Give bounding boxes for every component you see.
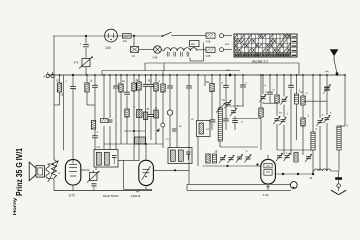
wire drop x261 [260, 75, 262, 150]
svg-text:m1: m1 [97, 146, 101, 149]
tube V3 shield bracket [118, 160, 152, 193]
IF transformer T1 coil b [104, 152, 109, 165]
wire drop x156 [155, 75, 157, 144]
coil L3 small [212, 154, 216, 163]
svg-text:ET2: ET2 [69, 194, 75, 198]
capacitor C13b [232, 121, 238, 123]
potentiometer ST4 [74, 57, 94, 69]
transformer TR1 voltage box [190, 40, 200, 48]
arrow on zigzag [50, 161, 59, 179]
capacitor C18 [324, 87, 330, 89]
resistor R6 [119, 84, 123, 92]
svg-text:7: 7 [287, 113, 289, 116]
capacitor C6 [124, 92, 130, 94]
svg-text:a: a [242, 121, 244, 124]
resistor R3 [85, 83, 89, 92]
wire drop x110 [109, 75, 111, 150]
svg-text:a: a [330, 112, 332, 115]
wire drop x243 [242, 75, 244, 106]
node bus junction dots [59, 74, 346, 76]
trimmer CT15 [273, 116, 280, 124]
wire drop x177 [176, 75, 178, 148]
svg-text:2: 2 [97, 131, 99, 134]
terminal pickup G1 [43, 72, 49, 79]
node junction at x86 top wire [85, 35, 87, 37]
wire bottom frame [187, 184, 291, 190]
wire grid line y144 [104, 143, 163, 161]
lamp dial [139, 46, 162, 60]
capacitor C7 [143, 84, 149, 86]
svg-text:4a: 4a [329, 84, 332, 87]
wire tube3 link [153, 169, 189, 171]
resistor R9 [154, 83, 158, 91]
svg-text:Prinz 35 G IV/1: Prinz 35 G IV/1 [14, 148, 24, 196]
wire drop x163 [162, 71, 164, 149]
wire drop x277 [276, 75, 278, 150]
wire link y147 [220, 146, 258, 148]
resistor R8c horizontal [135, 137, 146, 144]
speaker coil [46, 164, 49, 182]
wire drop x212 [211, 75, 213, 130]
capacitor C20 block [335, 177, 342, 180]
capacitor C4 [108, 120, 113, 122]
resistor field zigzag on x54 [51, 160, 56, 178]
svg-text:43a: 43a [123, 40, 128, 43]
capacitor C9 [167, 86, 173, 88]
wire link y103 [263, 102, 277, 104]
trimmer CT5 [236, 154, 243, 162]
wire drop x139 [138, 75, 140, 160]
svg-text:G: G [43, 75, 45, 79]
svg-text:4a: 4a [122, 80, 125, 83]
speaker cone [29, 162, 36, 181]
wire drop x73 tube1 anode [72, 74, 74, 160]
bus line upper y63 [145, 62, 299, 64]
ground symbol [331, 190, 346, 194]
svg-text:VVB: VVB [153, 57, 158, 60]
svg-text:2: 2 [159, 80, 161, 83]
capacitor C22 [172, 129, 176, 131]
wire bus link x164 [163, 63, 165, 71]
resistor R11 [259, 108, 263, 117]
wire bus link x145 [144, 63, 146, 71]
svg-text:2a: 2a [90, 80, 93, 83]
capacitor C10 [186, 86, 192, 88]
capacitor C11 [210, 120, 216, 122]
svg-text:12v: 12v [191, 42, 196, 46]
wire drop x151 [150, 75, 152, 140]
wire drop x313 [312, 75, 314, 172]
wire drop x59.5 [54, 75, 60, 105]
svg-text:25: 25 [56, 80, 59, 83]
svg-text:25: 25 [147, 108, 150, 111]
voltage table [234, 34, 297, 57]
capacitor C14 [267, 92, 273, 94]
fuse F1 [131, 47, 139, 58]
wire drop x121 [120, 75, 122, 144]
svg-text:+G: +G [226, 68, 231, 72]
wire drop x87 [87, 75, 95, 105]
IF transformer T2 coil a [170, 150, 175, 161]
wire drop x104 [103, 75, 105, 150]
resistor R1 in top wire [123, 34, 132, 43]
resistor R17 [210, 84, 214, 92]
wire bottom rail left [54, 190, 152, 192]
trimmer CT3 [219, 155, 226, 163]
capacitor C17 [288, 85, 294, 87]
wire drop x116 [115, 75, 117, 150]
wire drop x145.5 [145, 75, 147, 144]
coil L5 IF [337, 126, 341, 150]
svg-text:4: 4 [322, 114, 324, 117]
svg-text:7: 7 [246, 82, 248, 85]
resistor block VVB bottom [206, 47, 216, 58]
svg-text:49: 49 [222, 99, 225, 102]
resistor R13 [275, 95, 279, 103]
wire drop x263r [262, 75, 264, 103]
bus line main y75 [48, 74, 345, 76]
svg-text:+2: +2 [179, 125, 182, 128]
wire drop x305 [302, 75, 304, 155]
transformer TR1 primary humps [161, 48, 197, 51]
wire ground stub [337, 171, 341, 191]
wire top mains row [53, 35, 206, 37]
resistor R16 [301, 118, 305, 126]
wire rail x189 long [188, 75, 190, 184]
capacitor C4b [92, 136, 98, 138]
wire link y106 [226, 105, 244, 107]
svg-text:m: m [273, 89, 275, 92]
wire drop x86 [85, 36, 87, 75]
tube V3 DG detector [139, 160, 154, 189]
antenna symbol [330, 49, 339, 73]
svg-text:A: A [58, 171, 61, 175]
wire bus link x299 [298, 63, 300, 75]
wire rail x54 [53, 36, 55, 191]
wire stub antenna bus [336, 74, 338, 76]
wire drop x327 [326, 75, 328, 171]
wire coil down [338, 150, 340, 171]
capacitor C1 on x86 [80, 42, 89, 47]
coil L1 oscillator can [197, 121, 211, 137]
svg-text:Horny: Horny [12, 197, 18, 215]
wire drop x198 [197, 75, 199, 166]
transformer TR1 taps [167, 52, 189, 57]
svg-text:DGR 5N3U: DGR 5N3U [103, 194, 119, 198]
svg-text:4: 4 [265, 85, 267, 88]
svg-text:m: m [167, 138, 169, 141]
svg-text:1: 1 [66, 80, 68, 83]
trimmer CT4 [227, 155, 234, 163]
svg-text:m: m [306, 92, 308, 95]
wire drop x298 [296, 75, 298, 140]
svg-text:a: a [246, 150, 248, 153]
resistor R2 [57, 83, 61, 92]
svg-text:1.93: 1.93 [263, 193, 269, 197]
wire drop x235 [234, 75, 236, 130]
resistor R7 [132, 83, 136, 91]
speaker magnet box [36, 166, 45, 177]
node circle j4 [167, 110, 172, 115]
wire drop x95 [94, 75, 96, 150]
node jack dot [293, 187, 295, 189]
wire link y118.5 [232, 118, 261, 120]
resistor R18 [143, 112, 147, 120]
svg-text:4: 4 [286, 152, 288, 155]
node j3 [256, 163, 258, 165]
resistor R5 horizontal [101, 119, 109, 123]
trimmer CT1 [224, 100, 231, 108]
node fuse tap [133, 35, 135, 47]
wire drop x205 [204, 75, 206, 86]
wire drop x270 [269, 75, 271, 103]
trimmer CT2 [230, 108, 237, 116]
capacitor C8 [148, 84, 154, 86]
trimmer CT8 [280, 96, 287, 104]
coil L1b small [154, 110, 159, 118]
wire row2 to block [197, 49, 206, 51]
wire link y131 [124, 130, 145, 132]
node circle j1 [161, 123, 165, 127]
svg-text:49: 49 [158, 129, 161, 132]
svg-text:1402 B: 1402 B [131, 194, 141, 198]
svg-text:8: 8 [347, 125, 349, 128]
capacitor C3 [92, 85, 98, 87]
wire drop x226 [225, 75, 227, 130]
resistor block VVB top [206, 33, 216, 44]
tube V4 output L93 [261, 155, 276, 190]
capacitor C5 [113, 86, 119, 88]
resistor R6b [125, 109, 129, 117]
wire drop x345 [339, 75, 345, 126]
svg-text:m: m [237, 105, 239, 108]
node j2 [226, 165, 228, 167]
wire drop x320 [319, 75, 321, 171]
choke bumps y171 [313, 169, 338, 174]
wire link y101 [303, 100, 327, 102]
capacitor C8b [148, 114, 154, 116]
node +G junction [226, 68, 232, 77]
resistor R15 [301, 96, 305, 105]
rectifier tube V1 circle [105, 29, 118, 42]
trimmer CT9 [316, 118, 323, 126]
node antenna junction [325, 70, 339, 75]
svg-text:a: a [222, 82, 224, 85]
capacitor C19 arrowed [323, 84, 331, 94]
transformer TR1 frame [190, 43, 204, 62]
terminal pickup G2 [51, 72, 54, 78]
IF transformer T1 frame [94, 150, 118, 168]
terminal jack circle [290, 182, 297, 189]
capacitor C12b [223, 119, 229, 121]
node j5 [157, 130, 159, 132]
trimmer CT7 [259, 94, 266, 102]
coil L2 tall [216, 103, 226, 141]
svg-text:AM: AM [265, 185, 271, 189]
resistor R10 [161, 84, 165, 92]
trimmer CT6 [244, 154, 251, 162]
svg-text:302: 302 [206, 81, 211, 84]
wire drop x127 [126, 75, 128, 144]
resistor R8b [137, 110, 143, 118]
wire drop x63.5 [63, 75, 65, 150]
IF transformer T2 frame [168, 148, 192, 164]
svg-text:143: 143 [105, 46, 111, 50]
trimmer CT16 [279, 117, 286, 125]
svg-text:302: 302 [148, 80, 153, 83]
svg-text:3a: 3a [136, 79, 139, 82]
capacitor C2 [70, 87, 76, 89]
capacitor C12 [223, 85, 229, 87]
wire speaker links [48, 164, 61, 179]
svg-text:+: + [80, 42, 82, 46]
svg-text:VVB: VVB [206, 55, 211, 58]
terminal a mains [220, 34, 233, 38]
svg-text:a: a [134, 106, 136, 109]
svg-text:+2: +2 [206, 128, 209, 131]
svg-text:2: 2 [308, 115, 310, 118]
wire link y166 bottom row [203, 165, 262, 167]
svg-text:+: + [75, 88, 77, 91]
tube V2 output ET2 [65, 160, 80, 191]
wire bus link x102 [101, 71, 103, 76]
IF transformer T1 caps [112, 156, 117, 165]
coil L4 IF [311, 132, 315, 150]
wire drop x284 [283, 75, 285, 155]
IF transformer T2 coil b [178, 150, 183, 161]
wire link y150 right [277, 149, 313, 151]
svg-text:+B: +B [309, 176, 313, 180]
bus line mid y70.5 [102, 70, 240, 72]
svg-text:4a: 4a [279, 112, 282, 115]
svg-text:m: m [155, 107, 157, 110]
svg-text:1: 1 [118, 82, 120, 85]
svg-text:+4v: +4v [325, 70, 330, 74]
potentiometer P2 at tube [87, 171, 100, 183]
capacitor C21 [92, 184, 97, 191]
trimmer CT12 [283, 153, 290, 161]
resistor R8 [137, 82, 141, 90]
label tube lineup text [103, 194, 140, 198]
terminal b mains [220, 48, 233, 52]
component value labels [56, 79, 349, 155]
trimmer CT14 [305, 154, 312, 162]
svg-text:+2: +2 [191, 118, 194, 121]
resistor R12 row [206, 154, 210, 163]
wire drop x170 [169, 75, 171, 148]
IF transformer T1 coil a [96, 152, 101, 165]
trimmer CT11 [276, 153, 283, 161]
wire drop x134 [133, 75, 135, 160]
coil L7 row [294, 153, 298, 163]
svg-text:3E: 3E [215, 151, 218, 154]
capacitor C13 [240, 85, 246, 87]
coil L6 small [294, 94, 298, 104]
wire link y174 right [275, 173, 314, 175]
trimmer CT10 [323, 115, 330, 123]
switch S1 mains [162, 32, 172, 37]
wire tube2 right link [80, 167, 96, 173]
wire drop x291 [290, 75, 292, 155]
svg-text:ST4: ST4 [74, 61, 79, 65]
svg-text:a·b: a·b [225, 42, 229, 46]
wire drop x220 [219, 75, 221, 147]
svg-text:m2: m2 [132, 55, 136, 58]
IF transformer T2 caps [186, 152, 191, 160]
svg-text:VVB: VVB [206, 41, 211, 44]
svg-text:8: 8 [316, 128, 318, 131]
resistor R4 [91, 121, 95, 130]
